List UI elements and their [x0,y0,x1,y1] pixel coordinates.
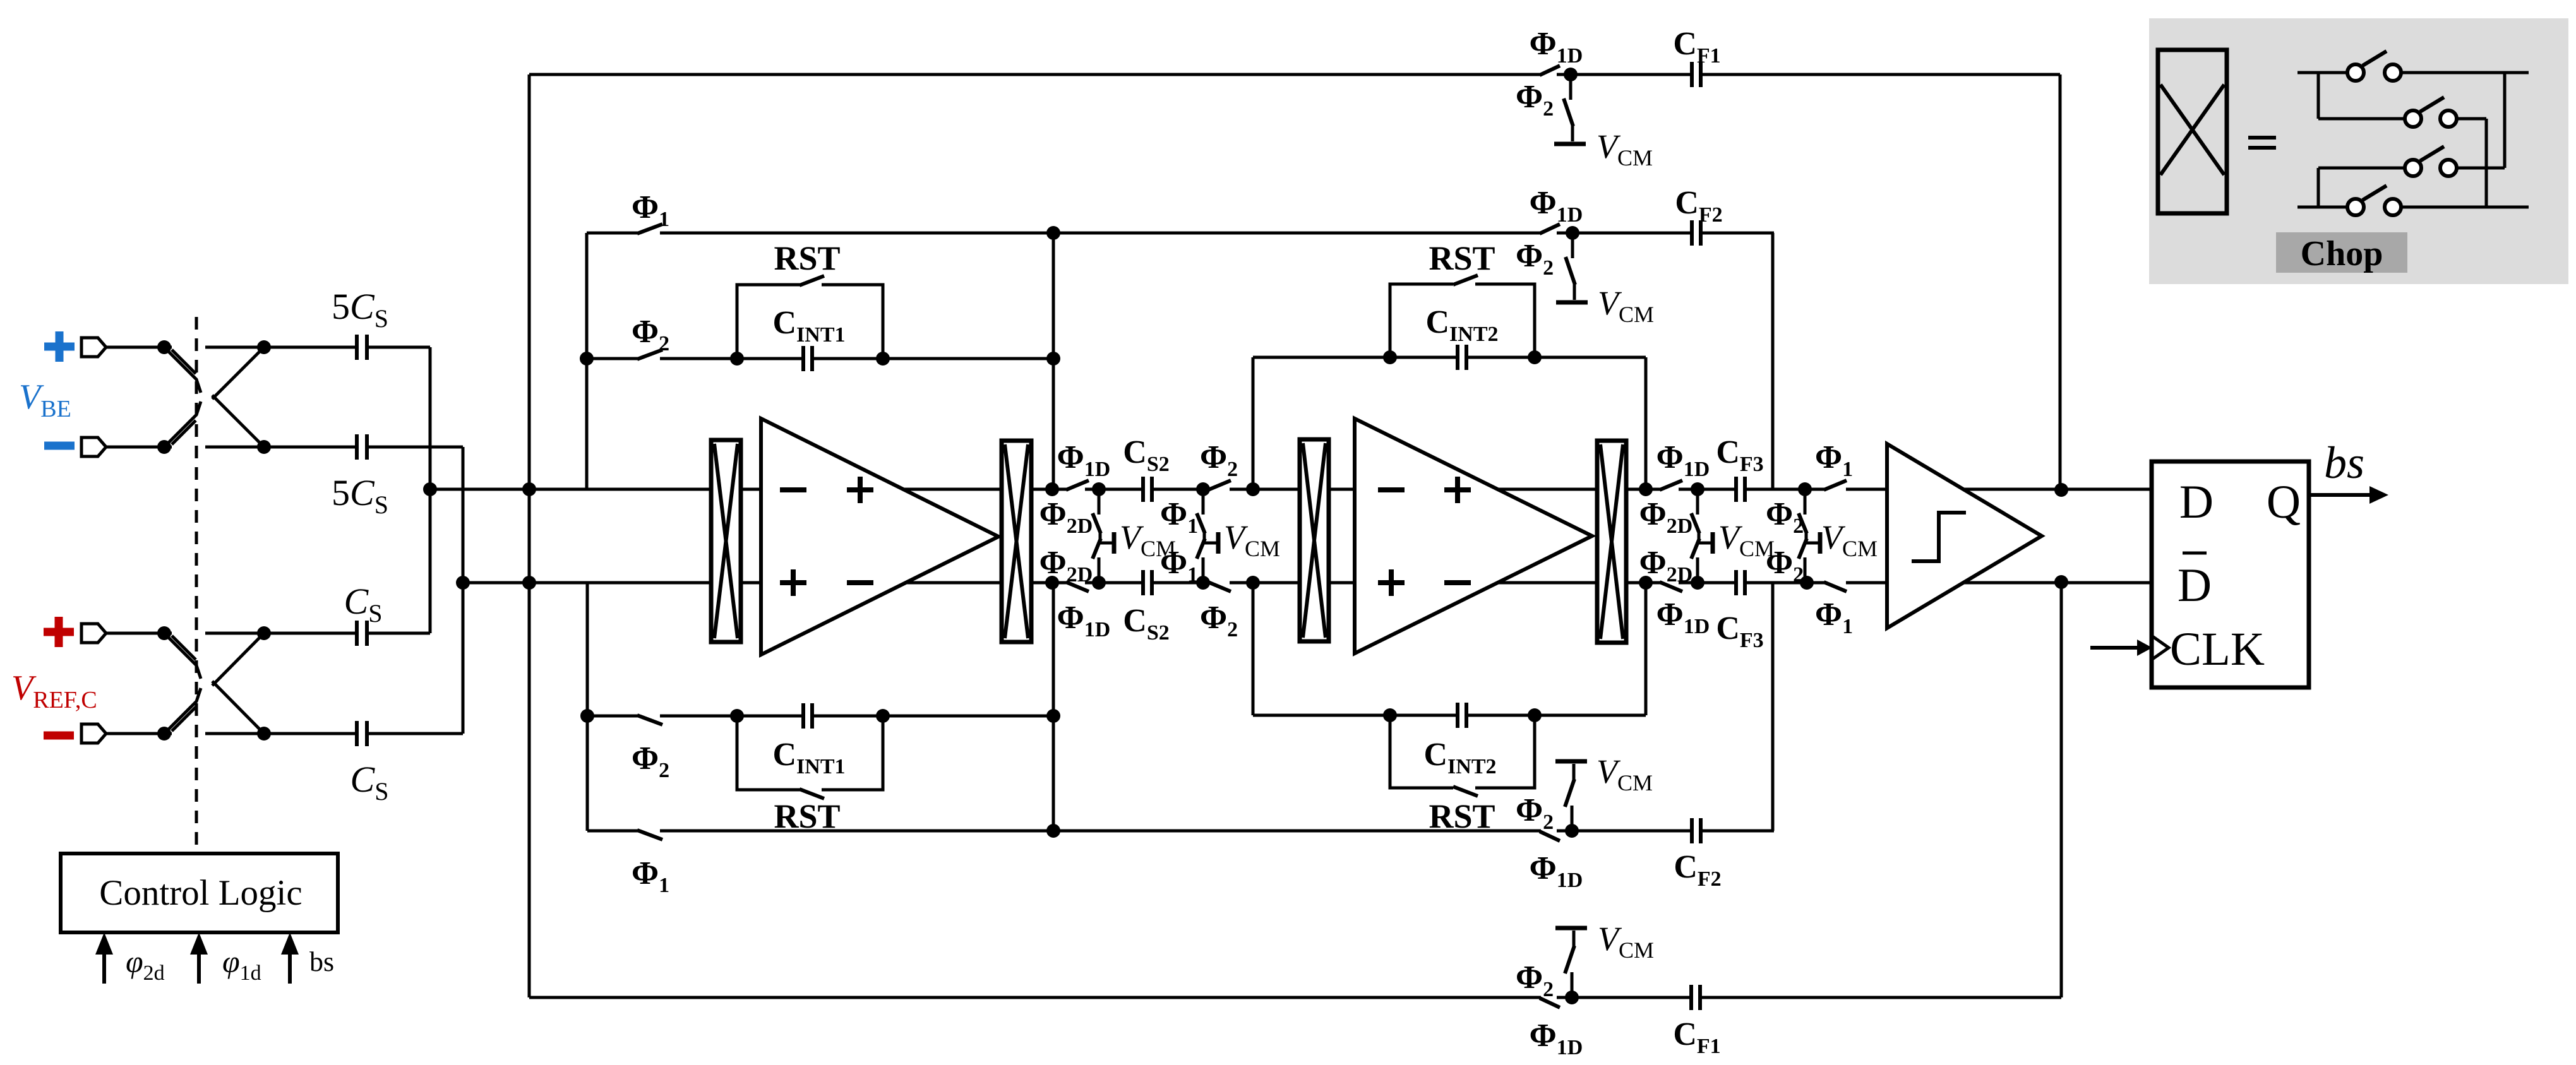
svg-text:CLK: CLK [2170,623,2265,675]
svg-text:RST: RST [774,797,840,835]
svg-text:bs: bs [2324,437,2364,488]
svg-text:Q: Q [2267,476,2301,528]
svg-text:D: D [2178,559,2212,612]
svg-text:RST: RST [1429,239,1495,277]
svg-text:D: D [2179,476,2214,528]
svg-text:RST: RST [774,239,840,277]
svg-text:Control Logic: Control Logic [99,873,302,913]
svg-text:bs: bs [309,946,334,977]
svg-text:Chop: Chop [2301,234,2383,273]
svg-text:RST: RST [1429,797,1495,835]
